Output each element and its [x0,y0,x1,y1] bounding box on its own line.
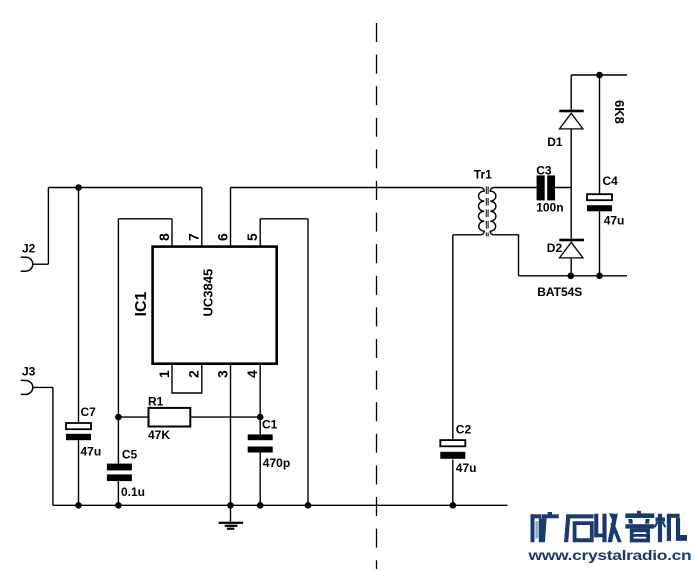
wire top right rail [571,74,627,76]
svg-text:8: 8 [156,233,172,241]
wire secondary bottom lead [494,235,519,276]
wire J3 vertical [52,387,54,505]
junction dot C4 bottom rail [596,273,603,280]
junction dot C5 ground [115,502,122,509]
ground symbol bar 2 [225,525,238,527]
transformer Tr1 primary winding [478,188,484,235]
junction dot pin5 ground [305,502,312,509]
wire C7 branch lower [78,440,80,505]
junction dot R1 left [115,414,122,421]
capacitor C4 top plate [587,194,612,200]
svg-text:47u: 47u [604,214,625,228]
wire top-left VCC rail [48,187,201,189]
svg-text:5: 5 [244,233,260,241]
svg-text:UC3845: UC3845 [200,269,215,317]
connector J2 [24,257,33,271]
svg-text:C2: C2 [456,423,472,437]
dashed isolation divider [376,23,378,569]
wire pin4 down [259,364,261,435]
wire VREF vertical lower [117,481,119,505]
svg-text:Tr1: Tr1 [474,168,492,182]
svg-text:www.crystalradio.cn: www.crystalradio.cn [527,549,691,564]
wire pin5 right [260,218,308,220]
svg-text:C4: C4 [603,174,619,188]
resistor R1 body [149,408,191,427]
capacitor C5 top plate [107,464,132,471]
diode D1 cathode bar [559,110,583,113]
ground symbol bar 1 [219,522,244,524]
svg-text:IC1: IC1 [133,292,150,317]
wire C7 branch upper [78,188,80,424]
svg-text:D2: D2 [547,241,563,255]
wire primary bottom lead [453,234,481,236]
svg-text:47u: 47u [456,461,477,475]
wire pin5 ground drop [307,219,309,506]
capacitor C3 left plate [537,175,545,200]
capacitor C1 bottom plate [248,447,273,453]
wire D1 top [570,75,572,110]
wire C4 lower [599,211,601,275]
wire ground stub [230,505,232,521]
wire J2 vertical [47,188,49,265]
wire C3 right lead [555,187,571,189]
svg-text:C7: C7 [81,405,97,419]
ground symbol bar 3 [227,528,234,530]
watermark char shou (æ¶) [594,513,622,542]
wire C2 lower [452,460,454,506]
svg-text:7: 7 [186,233,202,241]
watermark char kuang (ç¿) [531,512,559,542]
svg-text:BAT54S: BAT54S [537,285,582,299]
junction dot R1 right / C1 [257,414,264,421]
svg-text:4: 4 [244,370,260,378]
capacitor C4 bottom plate [587,205,612,211]
wire secondary top lead [494,187,537,189]
svg-text:47u: 47u [81,445,102,459]
wire bottom right rail [519,275,628,277]
op-amp IC1 box [153,247,277,364]
svg-text:C5: C5 [122,447,138,461]
wire pin1-pin2 loop [172,364,202,393]
wire pin6 to transformer [231,187,481,189]
J3 arc serif bottom [21,393,24,395]
wire bottom ground rail [53,504,508,506]
svg-text:3: 3 [214,370,230,378]
junction dot at VCC rail / C7 [75,184,82,191]
svg-text:J2: J2 [22,242,36,256]
capacitor C7 top plate [66,423,91,429]
J2 arc serif top [21,256,24,258]
junction dot C2 ground [450,502,457,509]
wire pin3 to ground [230,364,232,506]
svg-text:6: 6 [214,233,230,241]
junction dot top right rail [596,72,603,79]
svg-text:470p: 470p [263,456,290,470]
wire C2 upper [452,235,454,440]
capacitor C1 top plate [248,434,273,440]
junction dot C7 ground [75,502,82,509]
wire J3 lead [33,386,53,388]
wire pin8 left [118,218,172,220]
svg-text:6K8: 6K8 [612,100,627,124]
watermark char ji (æº) [654,514,687,543]
transformer Tr1 core right [487,187,489,237]
junction dot pin3 ground [227,502,234,509]
J3 arc serif top [21,379,24,381]
wire R1 left lead [118,416,148,418]
capacitor C2 bottom plate [440,452,465,459]
wire C4 upper [599,75,601,194]
wire J2 lead [33,263,48,265]
svg-text:0.1u: 0.1u [121,485,145,499]
svg-text:R1: R1 [148,394,164,408]
watermark char yin (é³) [625,511,654,543]
svg-text:C1: C1 [262,417,278,431]
svg-text:J3: J3 [22,365,36,379]
svg-text:D1: D1 [547,135,563,149]
junction dot D2 bottom rail [568,273,575,280]
watermark char shi (ç³) [564,514,594,542]
capacitor C2 top plate [440,440,465,446]
svg-text:1: 1 [156,370,172,378]
wire C1 lower [259,453,261,506]
wire pin7 to rail [201,188,203,247]
wire D1-D2 middle [570,129,572,239]
transformer Tr1 secondary winding [490,188,496,235]
diode D2 triangle [560,242,584,258]
junction dot C1 ground [257,502,264,509]
capacitor C7 bottom plate [66,434,91,440]
svg-text:C3: C3 [536,164,552,178]
J2 arc serif bottom [21,270,24,272]
wire VREF vertical upper [117,219,119,464]
capacitor C3 right plate [547,175,555,200]
wire D2 bottom [570,258,572,275]
diode D2 cathode bar [559,239,584,242]
wire pin8 up [171,219,173,247]
wire pin5 up [259,219,261,247]
capacitor C5 bottom plate [107,474,132,481]
svg-text:47K: 47K [148,428,170,442]
transformer Tr1 core left [485,187,487,237]
diode D1 triangle [560,113,584,129]
wire R1 right lead [190,416,260,418]
wire pin6 up [230,188,232,247]
connector J3 [24,380,33,394]
svg-text:2: 2 [186,370,202,378]
svg-text:100n: 100n [536,201,563,215]
